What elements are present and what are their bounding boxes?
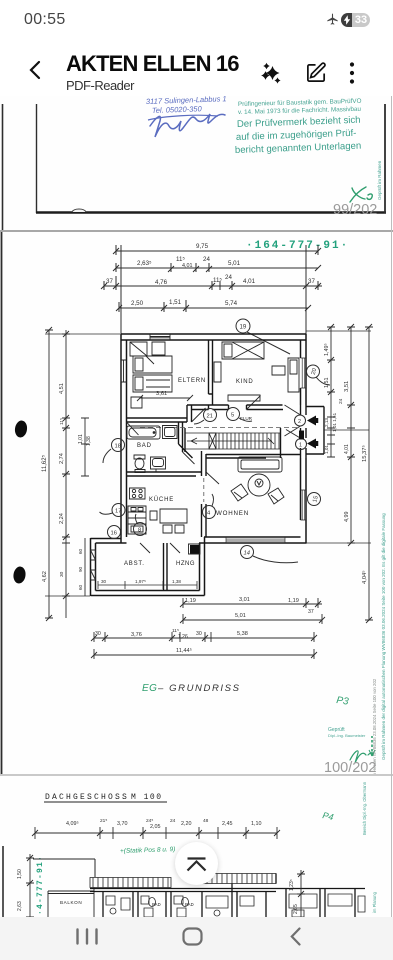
DG main walls [90, 874, 365, 918]
page 99 frame bottom line [36, 211, 386, 214]
svg-text:BAD: BAD [185, 902, 194, 907]
ELTERN bed 2 [133, 375, 172, 392]
circled 16 [108, 526, 121, 539]
svg-text:bericht genannten Unterlagen: bericht genannten Unterlagen [235, 141, 362, 156]
ELTERN door leaf [192, 408, 206, 422]
svg-text:24: 24 [338, 398, 344, 404]
balcony railing hatch right [199, 874, 276, 884]
svg-text:2,50: 2,50 [131, 300, 144, 307]
KIND shelf left [214, 362, 221, 382]
binder tab on frame line [72, 209, 86, 212]
svg-text:11⁵: 11⁵ [213, 277, 222, 284]
app title [66, 51, 239, 77]
KUECHE lower cabinet [128, 524, 146, 534]
DG top dim chain [32, 818, 280, 839]
home icon [182, 927, 203, 946]
page separator 2 [0, 774, 393, 776]
svg-text:DACHGESCHOSS: DACHGESCHOSS [45, 793, 129, 802]
circled 21 flur [194, 409, 217, 425]
circled 18 [103, 439, 125, 464]
BAD bottom / KUECHE top wall [127, 472, 202, 476]
sparkle AI icon [259, 59, 285, 87]
left dim line small near BAD [78, 418, 92, 596]
annex outer walls [91, 537, 205, 596]
svg-text:1,38: 1,38 [86, 436, 92, 446]
svg-text:3,70: 3,70 [117, 821, 128, 827]
svg-text:30: 30 [101, 579, 107, 584]
svg-text:4,01: 4,01 [344, 444, 350, 454]
circled 14 terrace [241, 546, 299, 563]
svg-text:Geprüft im Rahmen: Geprüft im Rahmen [377, 160, 382, 200]
staircase hatch [185, 433, 281, 449]
entrance door circle upper [285, 405, 306, 436]
green vertical dotted mark [371, 736, 373, 756]
navigation bar [0, 917, 393, 960]
entrance porch walls [301, 405, 325, 458]
entrance door circle lower [286, 430, 307, 450]
svg-text:21: 21 [207, 414, 213, 420]
svg-text:11,44⁵: 11,44⁵ [176, 647, 192, 654]
window in top wall [121, 334, 306, 543]
svg-text:5,38: 5,38 [237, 631, 248, 637]
hole punch upper [14, 420, 28, 439]
app subtitle [66, 78, 134, 93]
svg-text:4,51: 4,51 [59, 383, 65, 394]
svg-text:WOHNEN: WOHNEN [216, 510, 249, 517]
DG right dim line [289, 870, 305, 917]
dashed joist line over stairs [140, 427, 300, 429]
svg-text:1,01 1,51: 1,01 1,51 [332, 412, 337, 432]
svg-text:24: 24 [225, 274, 232, 281]
BAD bathtub [127, 426, 177, 473]
outer walls of house [91, 334, 307, 596]
annex left small dims [84, 538, 86, 596]
svg-text:Tel. 05020-350: Tel. 05020-350 [152, 104, 203, 115]
annex window hatch left wall [91, 550, 96, 580]
svg-text:2,13: 2,13 [324, 418, 329, 427]
wall pier between doors [299, 431, 304, 440]
page 100 (EG Grundriss floor plan) [0, 232, 393, 774]
svg-text:Bereich Dipl.-Ing. Obermann: Bereich Dipl.-Ing. Obermann [362, 781, 367, 835]
svg-text:37: 37 [308, 609, 314, 615]
svg-text:30: 30 [59, 571, 65, 577]
svg-text:1,01: 1,01 [324, 445, 329, 454]
svg-text:2,74: 2,74 [59, 453, 65, 464]
KUECHE table [160, 509, 187, 523]
circled 20 window [307, 365, 331, 385]
svg-text:30: 30 [95, 631, 101, 637]
svg-text:4,01: 4,01 [182, 263, 193, 269]
svg-text:1,19: 1,19 [185, 598, 196, 604]
bottom dim line 1 [180, 597, 322, 615]
svg-text:2,63⁵: 2,63⁵ [137, 260, 152, 267]
svg-text:5,01: 5,01 [228, 260, 241, 267]
bottom dim line 3 [91, 628, 317, 642]
svg-text:15,37⁵: 15,37⁵ [361, 444, 368, 462]
hole punch lower [12, 566, 26, 585]
svg-text:19: 19 [240, 325, 247, 331]
svg-text:2,20: 2,20 [181, 821, 192, 827]
svg-text:2,05: 2,05 [150, 824, 161, 830]
page 99 (bottom part of previous sheet) [0, 96, 393, 230]
bottom wall [199, 537, 307, 543]
svg-text:EG: EG [142, 683, 157, 694]
right dim line 1 [324, 324, 337, 457]
BAD washbasin cabinet [163, 426, 178, 439]
svg-text:4,99: 4,99 [344, 512, 350, 523]
svg-text:2,65: 2,65 [293, 904, 299, 914]
WOHNEN door leaf [206, 472, 219, 484]
left dim line inner [42, 330, 70, 618]
stair arrow [187, 438, 274, 444]
circled 15 window [308, 493, 321, 506]
svg-text:3,76: 3,76 [131, 632, 142, 638]
svg-text:+(Statik Pos 8 u. 9): +(Statik Pos 8 u. 9) [120, 846, 176, 855]
circled 19 with leader [236, 319, 290, 354]
svg-text:60: 60 [78, 584, 83, 590]
annex divider ABST/HZNG [164, 543, 168, 591]
back icon [290, 927, 301, 946]
svg-text:BAD: BAD [137, 443, 152, 449]
svg-text:Dipl.-Ing. Baumeister: Dipl.-Ing. Baumeister [328, 733, 366, 738]
svg-text:2: 2 [298, 419, 301, 425]
BAD sink [151, 457, 166, 469]
FLUR / KIND bottom wall [213, 405, 284, 410]
svg-text:11⁵: 11⁵ [176, 256, 185, 263]
svg-text:5,74: 5,74 [225, 300, 238, 307]
scroll-to-top floating button [175, 842, 218, 885]
left wall [121, 334, 127, 543]
svg-text:11⁵: 11⁵ [59, 418, 65, 425]
dim chain line 9,75 [113, 245, 321, 255]
window right wall WOHNEN [301, 490, 307, 520]
svg-text:21⁵: 21⁵ [100, 818, 107, 824]
green signature scribble [350, 751, 373, 763]
svg-text:17: 17 [115, 509, 121, 515]
svg-text:1,26: 1,26 [178, 634, 188, 640]
svg-text:3,01: 3,01 [239, 597, 250, 603]
svg-text:BAD: BAD [152, 902, 161, 907]
WOHNEN armchair right [268, 488, 284, 504]
svg-text:16: 16 [111, 531, 117, 537]
BAD toilet [134, 455, 145, 459]
svg-text:1,97⁵: 1,97⁵ [135, 579, 146, 584]
svg-text:14: 14 [244, 551, 250, 557]
annex door leaves [127, 422, 181, 553]
svg-text:1,01: 1,01 [78, 434, 84, 444]
edit icon [305, 61, 328, 84]
right wall [301, 334, 307, 543]
svg-text:15: 15 [312, 495, 319, 503]
balkon box [48, 888, 94, 918]
battery pill [341, 13, 370, 27]
svg-text:100/202: 100/202 [324, 760, 376, 774]
interior wall ELTERN/KIND [127, 340, 325, 591]
WOHNEN sofa [231, 457, 284, 504]
circled 17 [100, 504, 126, 517]
dim chain line 2 [113, 263, 321, 272]
window right wall KIND [301, 358, 307, 388]
page 100 left edge line [1, 232, 3, 774]
KUECHE stove [128, 488, 187, 534]
svg-text:KÜCHE: KÜCHE [149, 496, 174, 503]
svg-text:– GRUNDRISS: – GRUNDRISS [157, 683, 241, 694]
svg-text:1,10: 1,10 [251, 821, 262, 827]
svg-text:1,19: 1,19 [288, 598, 299, 604]
DG roof edge top-left [33, 859, 95, 877]
bottom dim line 2 [180, 613, 325, 624]
svg-text:Geprüft im Rahmen der digital: Geprüft im Rahmen der digital automatisc… [381, 513, 386, 760]
stair landing X box [209, 433, 216, 449]
status bar [0, 0, 393, 38]
window in left wall (ELTERN) [121, 360, 127, 382]
title underline [44, 801, 167, 803]
dim chain line 3 [101, 276, 322, 290]
svg-text:3,51: 3,51 [344, 381, 350, 392]
dim vertical guides from house corners [121, 245, 306, 335]
BAD right wall [179, 422, 193, 458]
svg-text:5,01: 5,01 [235, 613, 246, 619]
svg-text:4,76: 4,76 [155, 279, 168, 286]
clock [24, 11, 66, 29]
svg-text:2,63: 2,63 [17, 901, 23, 911]
right dim line 3 overall [361, 324, 373, 623]
bottom dim line 4 overall [91, 647, 317, 659]
DG left dim line [17, 854, 34, 917]
svg-text:1,51: 1,51 [169, 299, 182, 306]
svg-text:P3: P3 [336, 695, 350, 708]
stair side walls [185, 428, 281, 458]
svg-text:60: 60 [78, 548, 83, 554]
svg-text:4,04⁵: 4,04⁵ [361, 570, 368, 584]
circled 4 [203, 494, 216, 519]
svg-text:FLUR: FLUR [240, 416, 253, 421]
balcony railing hatch left [90, 878, 171, 888]
svg-text:im Planung: im Planung [372, 891, 377, 913]
KUECHE/WOHNEN divider [202, 451, 207, 537]
blue signature underline [148, 115, 218, 120]
dashed opening KUECHE/WOHNEN [203, 478, 205, 502]
ELTERN bed 1 [133, 356, 172, 373]
svg-text:·4-777-91·: ·4-777-91· [36, 855, 45, 915]
right edge scrollbar track [391, 96, 392, 917]
svg-text:P4: P4 [322, 810, 335, 822]
svg-text:ABST.: ABST. [124, 561, 145, 567]
right dim line 2 [338, 324, 355, 546]
page 99 inner frame left line [36, 104, 38, 213]
svg-text:BALKON: BALKON [60, 900, 82, 905]
svg-text:2,45: 2,45 [222, 821, 233, 827]
airplane icon [326, 13, 339, 26]
svg-text:1,51: 1,51 [324, 378, 330, 389]
svg-text:1,23⁵: 1,23⁵ [289, 879, 295, 891]
KIND desk [272, 358, 299, 392]
circled 8 [134, 514, 147, 536]
page 99 frame right line [384, 104, 386, 213]
svg-text:37: 37 [106, 278, 113, 285]
window bottom wall WOHNEN [226, 537, 285, 543]
svg-text:9,75: 9,75 [196, 243, 209, 250]
svg-text:3,61: 3,61 [156, 391, 167, 397]
svg-text:1,38: 1,38 [172, 579, 181, 584]
svg-text:4,09⁵: 4,09⁵ [66, 821, 79, 827]
svg-text:4,62: 4,62 [42, 571, 48, 582]
svg-text:HZNG: HZNG [176, 561, 195, 567]
svg-text:1: 1 [299, 443, 302, 449]
left dim line outer 11,62 [41, 327, 53, 621]
ELTERN wardrobe [130, 342, 172, 408]
svg-text:20: 20 [311, 368, 318, 376]
KUECHE chairs [150, 511, 184, 533]
svg-text:48: 48 [203, 818, 209, 824]
black arrow upper (entrance) [307, 416, 316, 426]
ELTERN dresser bottom [131, 397, 142, 408]
app bar [0, 38, 393, 96]
svg-text:24: 24 [203, 256, 210, 263]
green handwriting mark [350, 187, 372, 202]
BAD door leaf [183, 452, 195, 464]
overflow menu [349, 61, 355, 85]
dim 3,61 inside ELTERN [137, 391, 193, 401]
svg-text:1,49⁵: 1,49⁵ [324, 343, 330, 356]
svg-text:5: 5 [231, 413, 234, 419]
HZNG boiler black box [191, 546, 199, 554]
svg-text:24: 24 [170, 818, 176, 824]
svg-text:90: 90 [78, 566, 83, 572]
svg-text:11,62⁵: 11,62⁵ [41, 454, 48, 472]
svg-text:M 100: M 100 [131, 793, 163, 802]
svg-text:ELTERN: ELTERN [178, 378, 206, 384]
svg-text:18: 18 [115, 444, 121, 450]
WOHNEN top wall [206, 455, 301, 459]
BAD rug [135, 470, 145, 473]
dim chain line 4 [116, 302, 311, 312]
svg-text:2,24: 2,24 [59, 513, 65, 524]
svg-text:1,50: 1,50 [17, 869, 23, 879]
black arrow lower [307, 439, 316, 449]
WOHNEN round table [248, 474, 270, 496]
svg-text:30: 30 [196, 631, 202, 637]
KIND bed [214, 342, 299, 401]
KIND door leaf [247, 396, 261, 410]
svg-text:37: 37 [308, 278, 315, 285]
blue signature scribble [150, 114, 225, 137]
svg-text:4,01: 4,01 [243, 278, 256, 285]
page 101 (Dachgeschoss sheet top) [0, 776, 393, 917]
svg-text:·164-777-91·: ·164-777-91· [246, 240, 349, 252]
svg-text:99/202: 99/202 [333, 202, 377, 218]
dim extension lines [45, 331, 371, 596]
svg-text:8: 8 [138, 528, 141, 534]
top wall [121, 334, 307, 340]
WOHNEN armchair left [231, 484, 248, 501]
KUECHE counter with sink [128, 506, 146, 524]
back chevron [28, 60, 41, 80]
annex inner dim line [98, 579, 197, 589]
DG fixtures [106, 894, 365, 917]
KIND rug [228, 395, 260, 401]
svg-text:4: 4 [207, 511, 211, 517]
recents icon [76, 928, 98, 945]
page separator 1 [0, 230, 393, 232]
circled 5 flur [227, 408, 253, 422]
svg-text:KIND: KIND [236, 379, 254, 385]
page 99 left edge line [2, 104, 4, 230]
ELTERN bottom wall with door jog [127, 405, 213, 422]
DG page left edge line [2, 846, 4, 917]
